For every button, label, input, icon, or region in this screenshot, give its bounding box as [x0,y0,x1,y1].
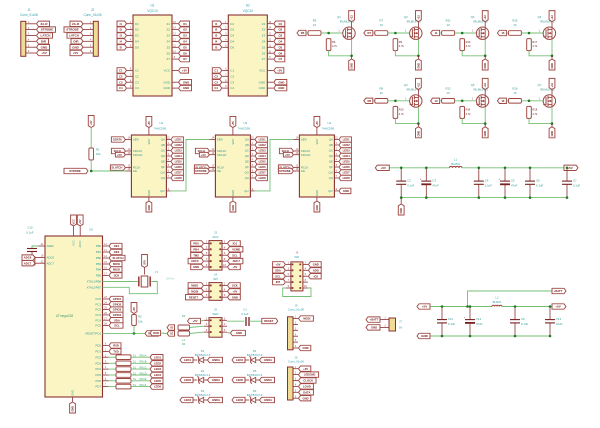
svg-text:D2: D2 [135,28,139,32]
svg-text:Z4: Z4 [262,40,266,44]
svg-text:GND: GND [70,406,74,412]
svg-text:10uF: 10uF [556,322,563,326]
svg-text:R8: R8 [380,86,384,90]
svg-text:GPIO1: GPIO1 [113,297,122,301]
svg-text:GND: GND [278,80,284,84]
svg-text:QA: QA [245,138,249,142]
svg-text:D5: D5 [230,45,234,49]
svg-text:GND: GND [303,346,309,350]
svg-text:INT: INT [276,280,281,284]
svg-text:SER: SER [301,138,307,142]
svg-text:LED7: LED7 [175,171,183,175]
svg-text:GND: GND [231,205,235,211]
svg-text:SER: SER [217,138,223,142]
svg-text:SDA: SDA [275,268,281,272]
svg-text:LED8: LED8 [175,176,183,180]
svg-text:LED3: LED3 [175,149,183,153]
svg-text:VCC: VCC [315,139,319,145]
svg-text:STROBE: STROBE [279,169,291,173]
svg-text:10: 10 [513,91,517,95]
svg-text:O2: O2 [278,28,282,32]
svg-text:U5: U5 [89,228,93,232]
svg-text:DIR: DIR [73,39,79,43]
svg-text:AREF: AREF [47,244,55,248]
svg-text:IO2: IO2 [314,274,319,278]
svg-text:QA: QA [161,138,165,142]
svg-text:Conn_01x06: Conn_01x06 [83,13,101,17]
svg-text:PD0: PD0 [193,242,199,246]
svg-text:+5V: +5V [277,69,282,73]
svg-text:LOAD: LOAD [303,385,311,389]
svg-text:IO1: IO1 [233,242,238,246]
svg-text:GND: GND [416,63,420,69]
svg-text:Q7: Q7 [538,83,542,87]
svg-text:MISO: MISO [191,284,199,288]
svg-text:SCL: SCL [275,274,281,278]
svg-text:Q1: Q1 [337,15,341,19]
svg-text:GNDA: GNDA [212,378,220,382]
svg-text:SDATA: SDATA [113,138,122,142]
svg-text:+BATT: +BATT [370,318,379,322]
svg-text:D1: D1 [230,22,234,26]
svg-text:BZX84C3.3: BZX84C3.3 [247,393,263,397]
svg-text:GND: GND [313,263,319,267]
svg-text:10: 10 [380,23,384,27]
svg-text:SLATCH: SLATCH [113,256,124,260]
svg-text:LED1: LED1 [154,355,162,359]
svg-text:4.7k: 4.7k [399,44,405,48]
svg-text:CLOCK: CLOCK [303,379,313,383]
svg-text:R1: R1 [96,148,100,152]
svg-text:PB4: PB4 [193,247,199,251]
svg-text:GND: GND [193,265,199,269]
svg-text:PC0: PC0 [96,297,102,301]
svg-text:LED2: LED2 [343,143,351,147]
svg-text:STROBE: STROBE [41,28,54,32]
svg-text:C2: C2 [230,74,234,78]
svg-text:GND: GND [483,131,487,137]
svg-text:LED5: LED5 [259,160,267,164]
svg-text:R5: R5 [313,19,317,23]
svg-text:XTA: XTA [142,260,146,265]
svg-text:15: 15 [501,31,505,35]
svg-text:LED2: LED2 [154,361,162,365]
svg-text:BZX84C3.3: BZX84C3.3 [195,373,211,377]
svg-text:LED3: LED3 [154,367,162,371]
svg-text:GND: GND [183,86,189,90]
svg-text:O7: O7 [183,57,187,61]
svg-text:+5V: +5V [201,153,206,157]
svg-text:VCC: VCC [164,69,171,73]
svg-text:LED2: LED2 [175,143,183,147]
svg-text:J8: J8 [295,251,298,255]
svg-text:Z1: Z1 [262,22,266,26]
svg-text:LED1: LED1 [184,358,192,362]
svg-text:SRCLR: SRCLR [301,153,310,157]
svg-text:PC5: PC5 [96,324,102,328]
svg-text:J5: J5 [214,308,218,312]
svg-text:+12: +12 [416,15,420,20]
svg-text:LED1: LED1 [259,138,267,142]
svg-text:Z7: Z7 [166,57,170,61]
svg-text:GNDA: GNDA [212,358,220,362]
svg-text:O6: O6 [183,51,187,55]
svg-text:10: 10 [447,23,451,27]
svg-text:D4: D4 [230,40,234,44]
svg-text:O4: O4 [278,40,282,44]
svg-text:OE: OE [217,169,221,173]
svg-text:C1: C1 [230,69,234,73]
svg-text:LATCH: LATCH [69,34,79,38]
svg-text:O7: O7 [278,57,282,61]
svg-text:R14: R14 [466,108,471,112]
svg-text:C1: C1 [135,69,139,73]
svg-text:C3: C3 [135,80,139,84]
svg-text:IND: IND [294,255,299,259]
svg-text:DATA: DATA [303,390,310,394]
svg-text:XTAL1/PB6: XTAL1/PB6 [87,280,102,284]
svg-text:Z4: Z4 [166,40,170,44]
svg-text:U4: U4 [327,121,331,125]
svg-text:C14: C14 [556,317,562,321]
svg-text:C3: C3 [214,80,218,84]
svg-text:4.7k: 4.7k [466,112,472,116]
svg-text:2A-R: 2A-R [40,22,48,26]
svg-text:GND: GND [416,131,420,137]
svg-text:5V: 5V [399,325,403,329]
svg-text:+12: +12 [550,15,554,20]
svg-text:R8: R8 [368,99,372,103]
svg-text:+5V: +5V [232,265,237,269]
svg-text:Q4: Q4 [471,15,475,19]
svg-text:STROBE: STROBE [195,169,207,173]
svg-text:O5: O5 [183,45,187,49]
svg-text:+5V: +5V [315,121,319,126]
svg-text:PC2: PC2 [96,308,102,312]
svg-text:QG: QG [329,171,333,175]
svg-text:+5V: +5V [117,153,122,157]
svg-text:STROBE: STROBE [69,169,81,173]
svg-text:O6: O6 [278,51,282,55]
svg-text:VQC10: VQC10 [243,9,254,13]
svg-text:LED7: LED7 [343,171,351,175]
svg-text:VQC10: VQC10 [147,9,158,13]
svg-text:LED4: LED4 [175,154,183,158]
svg-text:J1: J1 [27,8,31,12]
svg-text:J3: J3 [214,230,218,234]
svg-text:QD: QD [245,154,249,158]
svg-text:VCC: VCC [71,219,75,225]
svg-text:+5V: +5V [231,121,235,126]
svg-text:Z5: Z5 [166,45,170,49]
svg-text:4.7k: 4.7k [332,44,338,48]
svg-text:74HC595: 74HC595 [237,126,250,130]
svg-text:74HC595: 74HC595 [153,126,166,130]
svg-text:+: + [464,315,466,319]
svg-text:PD3: PD3 [96,361,102,365]
svg-text:QC: QC [329,149,333,153]
svg-text:4.7k: 4.7k [466,44,472,48]
svg-text:OE: OE [301,169,305,173]
svg-text:RESET: RESET [189,295,198,299]
svg-text:+BATT: +BATT [554,289,563,293]
svg-text:0.1uF: 0.1uF [26,230,33,234]
svg-text:MOSI: MOSI [191,289,198,293]
svg-text:MOSI: MOSI [113,262,120,266]
svg-text:C1: C1 [243,308,247,312]
svg-text:ADC6: ADC6 [24,256,32,260]
svg-text:LED1: LED1 [343,138,351,142]
svg-text:47uF: 47uF [476,322,483,326]
svg-text:C11: C11 [448,317,453,321]
svg-text:LED2: LED2 [184,378,192,382]
svg-text:SER: SER [133,138,139,142]
svg-text:+5V: +5V [78,219,82,224]
svg-text:ATmega328: ATmega328 [56,314,73,318]
svg-text:GND: GND [259,80,267,84]
svg-text:GND: GND [399,208,403,214]
svg-text:C12: C12 [476,317,482,321]
svg-text:VCC: VCC [147,139,151,145]
svg-text:47uF: 47uF [511,183,518,187]
svg-text:QC: QC [245,149,249,153]
svg-text:+5V: +5V [41,51,46,55]
svg-text:R7: R7 [368,31,372,35]
svg-text:C2: C2 [135,74,139,78]
svg-text:C4: C4 [119,86,123,90]
svg-text:MOSI: MOSI [303,317,310,321]
svg-text:ADC6: ADC6 [191,259,199,263]
svg-text:RXD: RXD [153,331,159,335]
svg-text:BZX84C3.3: BZX84C3.3 [247,373,263,377]
svg-text:QB: QB [329,143,333,147]
svg-text:QG: QG [161,171,165,175]
svg-text:QB: QB [161,143,165,147]
svg-text:LED6: LED6 [343,165,351,169]
svg-text:GND: GND [278,86,284,90]
svg-text:QA: QA [329,138,333,142]
svg-text:C5: C5 [511,179,515,183]
svg-text:QH': QH' [160,189,165,193]
svg-text:LED4: LED4 [259,154,267,158]
svg-text:QE: QE [245,160,249,164]
svg-text:LED2: LED2 [259,143,267,147]
svg-text:Q2: Q2 [404,15,408,19]
svg-text:ADC7: ADC7 [24,261,32,265]
svg-text:BLM21: BLM21 [493,300,502,304]
svg-text:O5: O5 [278,45,282,49]
svg-text:4.7k: 4.7k [532,44,538,48]
svg-text:BZX84C3.3: BZX84C3.3 [195,353,211,357]
svg-text:GND: GND [315,190,319,196]
svg-text:+5V: +5V [193,319,198,323]
svg-text:LED5: LED5 [175,160,183,164]
svg-text:MISO: MISO [113,268,121,272]
svg-text:DIR: DIR [41,39,47,43]
svg-text:QD: QD [161,154,165,158]
svg-text:R11: R11 [446,19,451,23]
svg-text:PB3: PB3 [96,262,102,266]
svg-text:GND: GND [232,295,238,299]
svg-text:LED4: LED4 [343,154,351,158]
svg-text:+12: +12 [350,15,354,20]
svg-text:C2: C2 [119,74,123,78]
svg-text:TXD: TXD [113,350,119,354]
svg-text:16MHz: 16MHz [166,276,175,280]
svg-text:D3: D3 [230,34,234,38]
svg-text:Z5: Z5 [262,45,266,49]
svg-text:O1: O1 [278,22,282,26]
svg-text:VCC: VCC [231,139,235,145]
svg-text:Conn_01x06: Conn_01x06 [288,359,304,363]
svg-text:Z2: Z2 [166,28,170,32]
svg-text:QH': QH' [244,189,249,193]
svg-text:VCC: VCC [259,69,266,73]
svg-text:LED4: LED4 [154,373,162,377]
svg-text:H1: H1 [150,4,154,8]
svg-text:SCK: SCK [232,284,238,288]
svg-text:47uF: 47uF [432,183,439,187]
svg-text:+5V: +5V [381,166,386,170]
svg-text:0.1uF: 0.1uF [573,183,580,187]
svg-text:0.1uF: 0.1uF [407,183,414,187]
svg-text:+5V: +5V [303,367,308,371]
svg-text:PC4: PC4 [96,318,102,322]
svg-text:LED7: LED7 [259,171,267,175]
svg-text:O2: O2 [183,28,187,32]
svg-text:LED3: LED3 [259,149,267,153]
svg-text:QD: QD [329,154,333,158]
svg-text:GND: GND [147,190,151,196]
svg-text:11: 11 [435,31,438,35]
svg-text:OE1: OE1 [114,244,120,248]
svg-text:ADC7: ADC7 [232,259,240,263]
svg-text:R15: R15 [512,19,518,23]
svg-text:+5V: +5V [232,289,237,293]
svg-text:10: 10 [313,23,317,27]
svg-text:AVCC: AVCC [78,240,82,247]
svg-text:LATCH: LATCH [41,34,51,38]
svg-text:GND: GND [421,334,429,338]
svg-text:2A-R: 2A-R [72,22,80,26]
svg-text:10k: 10k [96,152,101,156]
svg-text:R10: R10 [399,108,404,112]
svg-text:10: 10 [380,91,384,95]
svg-text:C4: C4 [214,86,218,90]
svg-text:ADC7: ADC7 [47,261,55,265]
svg-text:J2: J2 [91,8,95,12]
svg-text:+12: +12 [483,82,487,87]
svg-text:R17: R17 [532,40,537,44]
svg-text:GND: GND [343,189,349,193]
svg-text:SRCLR: SRCLR [133,153,142,157]
svg-text:0.1uF: 0.1uF [521,322,528,326]
svg-text:O4: O4 [183,40,187,44]
svg-text:SCL: SCL [114,324,120,328]
svg-text:GND: GND [183,80,189,84]
svg-text:GPIO3: GPIO3 [113,308,122,312]
svg-text:R12: R12 [446,86,452,90]
svg-text:L2: L2 [495,295,499,299]
svg-text:0.1uF: 0.1uF [448,322,455,326]
svg-text:PB2: PB2 [96,256,102,260]
svg-text:XTAL2/PB7: XTAL2/PB7 [87,285,102,289]
svg-text:GND: GND [236,331,242,335]
svg-text:C4: C4 [135,86,139,90]
svg-text:SRCLR: SRCLR [217,153,226,157]
svg-text:L1: L1 [454,157,458,161]
svg-text:C9: C9 [521,317,525,321]
svg-text:LED8: LED8 [259,176,267,180]
svg-text:PD1: PD1 [96,350,102,354]
svg-text:GND: GND [371,326,377,330]
svg-text:OE: OE [133,169,137,173]
svg-text:GNDA: GNDA [264,398,272,402]
svg-text:PD0: PD0 [96,344,102,348]
svg-text:ADC6: ADC6 [47,256,55,260]
svg-text:Q3: Q3 [404,83,408,87]
svg-text:C1: C1 [119,69,123,73]
svg-text:PD7: PD7 [96,385,102,389]
svg-text:C3: C3 [432,179,436,183]
svg-text:PD5: PD5 [96,373,102,377]
svg-text:10: 10 [223,263,226,267]
svg-text:74HC595: 74HC595 [321,126,334,130]
svg-text:BLM31: BLM31 [451,162,460,166]
svg-text:Z6: Z6 [262,51,266,55]
svg-text:GNDA: GNDA [212,398,220,402]
svg-text:PB5: PB5 [96,274,102,278]
svg-text:U3: U3 [243,121,247,125]
svg-text:J7: J7 [399,319,402,323]
svg-text:GND: GND [163,80,171,84]
svg-text:GND: GND [550,131,554,137]
svg-text:R5: R5 [301,31,305,35]
svg-text:Z6: Z6 [166,51,170,55]
svg-text:D4: D4 [135,40,139,44]
svg-text:C1: C1 [214,69,218,73]
svg-text:R16: R16 [512,86,518,90]
svg-text:VCMD: VCMD [232,247,240,251]
svg-text:QG: QG [245,171,249,175]
svg-text:QB: QB [245,143,249,147]
svg-text:GPIO2: GPIO2 [113,302,122,306]
svg-text:+5V: +5V [422,305,427,309]
svg-text:LED6: LED6 [175,165,183,169]
svg-text:QH': QH' [328,189,333,193]
svg-text:GND: GND [550,63,554,69]
svg-text:LED6: LED6 [259,165,267,169]
svg-text:+5V: +5V [276,263,281,267]
svg-text:O1: O1 [183,22,187,26]
svg-text:Z1: Z1 [166,22,170,26]
svg-text:R2: R2 [138,315,142,319]
svg-text:Conn_01x06: Conn_01x06 [288,308,304,312]
svg-text:C6: C6 [536,179,540,183]
svg-text:0.1uF: 0.1uF [536,183,543,187]
svg-text:PB0: PB0 [96,244,102,248]
svg-text:R18: R18 [532,108,537,112]
svg-text:Z2: Z2 [262,28,266,32]
svg-text:R3: R3 [182,314,186,318]
svg-text:QH: QH [161,176,165,180]
svg-text:PD4: PD4 [96,367,102,371]
svg-text:QH: QH [329,176,333,180]
svg-text:ADD: ADD [313,268,319,272]
svg-text:GND: GND [350,63,354,69]
svg-text:C2: C2 [407,179,411,183]
svg-text:LED6: LED6 [236,398,244,402]
